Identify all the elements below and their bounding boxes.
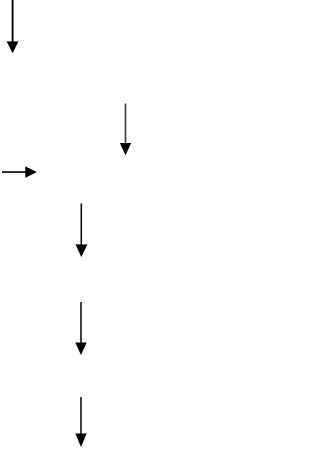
arrow A1 (vertical, top-left, pointing down) [7,0,19,53]
arrow A6 (vertical, bottom, pointing down) [75,397,86,447]
arrow A3 (horizontal, left side, pointing right) [2,166,37,177]
arrow A2 (vertical, right side, pointing down) [120,104,131,156]
arrow A4 (vertical, middle, pointing down) [76,204,88,258]
arrow A5 (vertical, middle-lower, pointing down) [75,302,86,355]
